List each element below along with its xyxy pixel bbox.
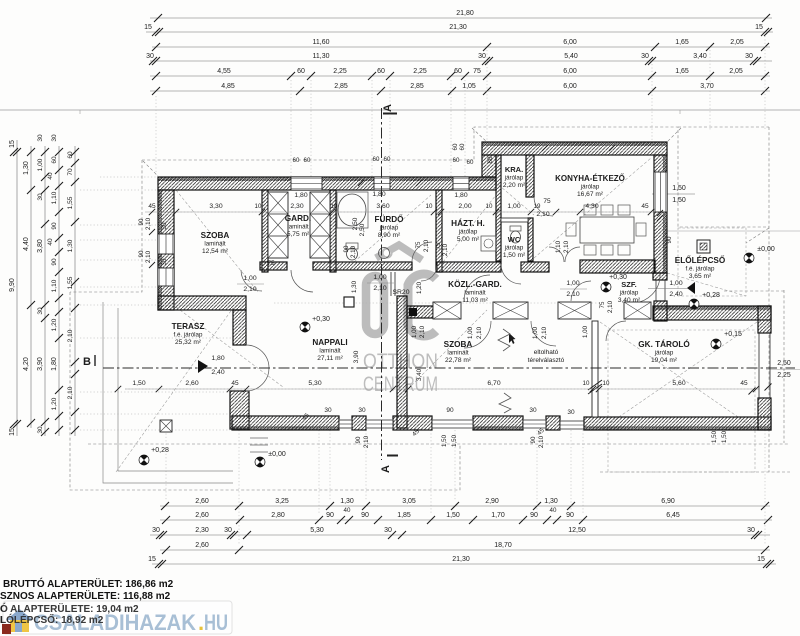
- svg-text:SZOBA: SZOBA: [444, 340, 473, 349]
- top dimension chain rows: [144, 10, 773, 95]
- door arcs: [241, 197, 660, 391]
- svg-text:TERASZ: TERASZ: [172, 322, 205, 331]
- svg-text:1,70: 1,70: [491, 512, 505, 519]
- svg-text:1,10: 1,10: [51, 191, 58, 204]
- svg-text:30: 30: [224, 527, 232, 534]
- svg-text:2,10: 2,10: [607, 300, 614, 313]
- svg-text:3,30: 3,30: [209, 203, 222, 210]
- svg-text:FÜRDŐ: FÜRDŐ: [374, 213, 404, 224]
- szf east wall: [654, 301, 667, 321]
- svg-text:Ó ALAPTERÜLETE: 19,04 m2: Ó ALAPTERÜLETE: 19,04 m2: [0, 602, 139, 615]
- svg-text:KÖZL.-GARD.: KÖZL.-GARD.: [448, 279, 502, 289]
- south window 4: [523, 419, 546, 429]
- kitchen bottom wall: [580, 260, 655, 273]
- svg-text:45: 45: [641, 203, 649, 210]
- svg-text:30: 30: [324, 407, 332, 414]
- svg-text:90: 90: [51, 222, 58, 230]
- svg-text:3,90: 3,90: [37, 357, 44, 371]
- svg-text:30: 30: [161, 222, 168, 229]
- svg-text:WC: WC: [508, 235, 521, 244]
- svg-text:30: 30: [37, 307, 44, 315]
- garage right wall top: [758, 306, 771, 333]
- svg-text:+0,30: +0,30: [609, 274, 627, 281]
- svg-text:6,00: 6,00: [563, 68, 577, 75]
- kitchen east window: [654, 172, 667, 212]
- svg-text:2,25: 2,25: [413, 68, 427, 75]
- svg-text:2,10: 2,10: [536, 211, 549, 218]
- svg-text:laminált: laminált: [464, 290, 486, 297]
- radiator zigzag 1: [498, 329, 510, 351]
- svg-text:2,10: 2,10: [538, 435, 545, 448]
- svg-text:70: 70: [67, 168, 74, 176]
- svg-text:40: 40: [550, 507, 557, 514]
- terasz post: [160, 420, 172, 432]
- B arrow: [198, 360, 208, 373]
- svg-text:1,10: 1,10: [555, 240, 562, 253]
- svg-text:+0,28: +0,28: [702, 292, 720, 299]
- watermark OC Otthon Centrum: [366, 245, 436, 336]
- svg-text:laminált: laminált: [204, 241, 226, 248]
- svg-text:90: 90: [530, 436, 537, 443]
- wc east wall: [528, 218, 533, 261]
- svg-text:NAPPALI: NAPPALI: [312, 338, 347, 347]
- svg-text:GARD.: GARD.: [285, 214, 311, 223]
- svg-text:60: 60: [452, 143, 459, 150]
- svg-text:30: 30: [478, 53, 486, 60]
- svg-text:1,00: 1,00: [532, 326, 539, 339]
- svg-text:5,00 m²: 5,00 m²: [457, 236, 480, 243]
- svg-text:HÁZT. H.: HÁZT. H.: [451, 218, 485, 228]
- svg-text:járólap: járólap: [619, 290, 639, 297]
- svg-text:90: 90: [138, 218, 145, 225]
- corridor closet 2: [493, 302, 528, 319]
- svg-text:60: 60: [453, 157, 460, 164]
- gard west wall: [262, 190, 268, 272]
- window W2 top: [374, 177, 390, 190]
- wc north wall: [501, 218, 528, 222]
- eave dashed outline: [70, 127, 790, 490]
- svg-text:1,50: 1,50: [446, 512, 460, 519]
- svg-text:90: 90: [530, 512, 538, 519]
- svg-text:60: 60: [377, 68, 385, 75]
- svg-text:BRUTTÓ ALAPTERÜLET: 186,86 m2: BRUTTÓ ALAPTERÜLET: 186,86 m2: [3, 577, 174, 590]
- svg-text:4,40: 4,40: [23, 237, 30, 251]
- svg-text:10: 10: [486, 203, 493, 210]
- wc toilet: [510, 226, 521, 243]
- middle wall wc: [521, 262, 549, 272]
- svg-text:90: 90: [138, 250, 145, 257]
- svg-text:80: 80: [487, 156, 494, 163]
- svg-text:40: 40: [344, 507, 351, 514]
- garage door opening right: [758, 333, 760, 398]
- kitchen east wall: [654, 155, 667, 273]
- svg-text:1,50: 1,50: [672, 185, 686, 192]
- dotted projection lines vertical: [156, 36, 765, 545]
- svg-text:5,30: 5,30: [308, 380, 321, 387]
- svg-text:2,10: 2,10: [350, 245, 357, 258]
- svg-text:40: 40: [47, 238, 54, 246]
- gard closet right: [310, 192, 330, 258]
- svg-text:5,60: 5,60: [672, 380, 685, 387]
- svg-text:1,30: 1,30: [351, 280, 358, 293]
- svg-text:30: 30: [745, 53, 753, 60]
- corridor closet 3: [558, 302, 591, 319]
- terasz top wall: [158, 296, 246, 310]
- svg-text:12,50: 12,50: [568, 527, 586, 534]
- svg-text:2,10: 2,10: [442, 243, 449, 256]
- svg-text:30: 30: [37, 193, 44, 201]
- svg-text:45: 45: [148, 203, 156, 210]
- svg-text:1,80: 1,80: [294, 192, 307, 199]
- kra east wall: [526, 155, 534, 197]
- area summary text: [0, 577, 174, 626]
- right side dims: [652, 193, 695, 195]
- svg-text:30: 30: [567, 409, 575, 416]
- gard closet left: [268, 192, 288, 258]
- garage west partition: [588, 321, 602, 417]
- svg-text:19,04 m²: 19,04 m²: [651, 357, 678, 364]
- svg-text:2,10: 2,10: [541, 326, 548, 339]
- svg-text:30: 30: [641, 53, 649, 60]
- svg-text:2,05: 2,05: [730, 39, 744, 46]
- svg-text:27,11 m²: 27,11 m²: [317, 355, 343, 362]
- svg-text:1,00: 1,00: [243, 275, 256, 282]
- svg-text:3,65 m²: 3,65 m²: [689, 273, 712, 280]
- svg-text:HU: HU: [204, 610, 228, 635]
- svg-text:laminált: laminált: [447, 350, 469, 357]
- nappali west wall: [233, 310, 246, 345]
- svg-text:2,90: 2,90: [485, 498, 499, 505]
- garage right wall bottom: [758, 398, 771, 430]
- svg-text:2,10: 2,10: [566, 291, 579, 298]
- svg-text:2,80: 2,80: [271, 512, 285, 519]
- south wall stub: [352, 416, 366, 430]
- svg-text:60: 60: [297, 68, 305, 75]
- window W1 top: [291, 177, 322, 190]
- nappali west corner: [230, 391, 249, 429]
- svg-text:KRA.: KRA.: [505, 165, 523, 174]
- svg-text:75: 75: [415, 241, 422, 248]
- svg-text:3,40: 3,40: [693, 53, 707, 60]
- svg-text:1,30: 1,30: [67, 239, 74, 252]
- svg-text:2,10: 2,10: [363, 435, 370, 448]
- svg-text:30: 30: [384, 527, 392, 534]
- svg-text:15: 15: [9, 140, 16, 148]
- nappali post: [344, 297, 354, 307]
- svg-text:2,60: 2,60: [195, 542, 209, 549]
- svg-text:+0,28: +0,28: [151, 447, 169, 454]
- bath tub: [337, 192, 368, 228]
- svg-text:30: 30: [152, 527, 160, 534]
- west window 1: [158, 234, 174, 254]
- svg-text:1,80: 1,80: [51, 357, 58, 371]
- svg-text:SZOBA: SZOBA: [201, 231, 230, 240]
- svg-text:1,55: 1,55: [67, 196, 74, 209]
- svg-text:60: 60: [293, 157, 300, 164]
- svg-text:60: 60: [459, 143, 466, 150]
- svg-text:30: 30: [161, 258, 168, 265]
- svg-text:60: 60: [454, 68, 462, 75]
- entrance arrow: [687, 282, 695, 294]
- svg-text:19: 19: [534, 203, 541, 210]
- svg-text:6,00: 6,00: [563, 39, 577, 46]
- svg-text:laminált: laminált: [287, 224, 309, 231]
- south window 5: [560, 420, 584, 430]
- svg-text:2,60: 2,60: [195, 498, 209, 505]
- svg-text:90: 90: [51, 258, 58, 266]
- svg-text:1,00: 1,00: [467, 326, 474, 339]
- svg-text:4,20: 4,20: [23, 357, 30, 371]
- svg-text:6,70: 6,70: [487, 380, 500, 387]
- roof projection diagonals: [116, 158, 757, 472]
- svg-text:B: B: [83, 356, 91, 368]
- interior dashed reference lines: [125, 212, 760, 389]
- SR20 pillar wall: [397, 296, 407, 428]
- svg-text:30: 30: [37, 426, 44, 434]
- svg-text:15: 15: [148, 556, 156, 563]
- svg-text:1,50: 1,50: [711, 430, 718, 443]
- section mark A bottom: [387, 455, 398, 457]
- dining table: [580, 217, 634, 243]
- cursor artifact: [509, 333, 516, 344]
- svg-text:18,70: 18,70: [494, 542, 512, 549]
- svg-text:1,50: 1,50: [132, 380, 145, 387]
- svg-text:3,40: 3,40: [416, 368, 423, 381]
- south wall at A: [393, 416, 432, 430]
- svg-text:90: 90: [355, 436, 362, 443]
- gard east wall: [330, 190, 336, 272]
- svg-text:60: 60: [467, 159, 474, 166]
- svg-text:±0,00: ±0,00: [268, 451, 286, 458]
- svg-text:SR20: SR20: [392, 289, 409, 296]
- svg-text:6,00: 6,00: [563, 83, 577, 90]
- svg-text:75: 75: [473, 68, 481, 75]
- middle wall házt: [437, 262, 501, 272]
- svg-text:2,25: 2,25: [333, 68, 347, 75]
- svg-text:1,80: 1,80: [211, 355, 224, 362]
- svg-text:90: 90: [343, 245, 350, 252]
- svg-text:10: 10: [583, 380, 590, 387]
- middle wall g1: [260, 262, 287, 270]
- svg-text:járólap: járólap: [504, 245, 524, 252]
- svg-text:SZF.: SZF.: [621, 280, 636, 289]
- svg-text:A: A: [382, 104, 394, 112]
- svg-text:2,10: 2,10: [563, 240, 570, 253]
- svg-text:2,00: 2,00: [458, 203, 471, 210]
- svg-text:25,32 m²: 25,32 m²: [175, 339, 202, 346]
- svg-text:15: 15: [9, 428, 16, 436]
- svg-text:90: 90: [361, 512, 369, 519]
- svg-text:2,10: 2,10: [423, 239, 430, 252]
- svg-text:2,10: 2,10: [243, 286, 256, 293]
- svg-text:75: 75: [599, 301, 606, 308]
- svg-text:laminált: laminált: [319, 348, 341, 355]
- garage bottom wall: [584, 417, 771, 430]
- garage ne connector: [653, 273, 667, 280]
- szf closet: [624, 302, 651, 319]
- svg-text:1,00: 1,00: [582, 325, 589, 338]
- svg-text:2,40: 2,40: [669, 291, 682, 298]
- svg-text:5,40: 5,40: [564, 53, 578, 60]
- svg-text:60: 60: [51, 156, 58, 164]
- svg-text:11,03 m²: 11,03 m²: [462, 297, 488, 304]
- svg-text:ELŐLÉPCSŐ: ELŐLÉPCSŐ: [675, 254, 726, 265]
- svg-text:2,10: 2,10: [67, 329, 74, 342]
- svg-text:járólap: járólap: [504, 175, 524, 182]
- kitchen west connector: [482, 155, 496, 177]
- svg-text:2,10: 2,10: [476, 326, 483, 339]
- svg-text:1,00: 1,00: [37, 158, 44, 171]
- svg-text:45: 45: [740, 380, 748, 387]
- svg-text:21,30: 21,30: [452, 556, 470, 563]
- svg-text:1,85: 1,85: [397, 512, 411, 519]
- svg-text:2,30: 2,30: [290, 203, 303, 210]
- svg-text:1,65: 1,65: [675, 39, 689, 46]
- svg-text:2,50: 2,50: [352, 217, 359, 230]
- svg-text:75: 75: [435, 242, 442, 249]
- svg-text:30: 30: [51, 134, 58, 142]
- svg-text:11,30: 11,30: [313, 53, 330, 60]
- svg-text:5,30: 5,30: [310, 527, 324, 534]
- south wall 1: [232, 416, 339, 430]
- corridor west thin partition: [391, 272, 395, 296]
- horizontal page line: [0, 109, 800, 111]
- svg-text:térelválasztó: térelválasztó: [528, 357, 565, 364]
- terasz deck outline: [103, 302, 233, 483]
- left dimension chain columns: [9, 134, 79, 436]
- west wall: [158, 190, 174, 310]
- svg-text:60: 60: [67, 151, 74, 159]
- svg-text:1,30: 1,30: [340, 498, 354, 505]
- szf-elölépcső door jamb lines: [656, 280, 665, 301]
- svg-text:45: 45: [231, 380, 239, 387]
- svg-text:15: 15: [755, 24, 763, 31]
- svg-text:1,00: 1,00: [669, 280, 682, 287]
- svg-text:8,90 m²: 8,90 m²: [378, 232, 401, 239]
- corridor closet 1: [433, 302, 461, 319]
- section line A: [381, 108, 383, 460]
- svg-text:eltolható: eltolható: [534, 349, 559, 356]
- fürdő east wall: [436, 190, 442, 272]
- svg-text:±0,00: ±0,00: [757, 246, 775, 253]
- svg-text:11,60: 11,60: [313, 39, 330, 46]
- svg-text:15: 15: [144, 24, 152, 31]
- svg-text:1,50: 1,50: [441, 434, 448, 447]
- svg-text:1,00: 1,00: [411, 325, 418, 338]
- section line B: [103, 367, 795, 369]
- window W3 top: [453, 177, 469, 190]
- svg-text:4,30: 4,30: [585, 203, 598, 210]
- fürdő basin: [379, 248, 390, 259]
- svg-text:1,20: 1,20: [51, 397, 58, 410]
- svg-text:60: 60: [373, 156, 380, 163]
- south window 3: [432, 419, 473, 429]
- middle wall g2-fürdő: [313, 262, 412, 270]
- watermark csaladihazak.hu: [0, 601, 232, 635]
- svg-text:90: 90: [566, 512, 574, 519]
- svg-text:1,00: 1,00: [507, 203, 520, 210]
- svg-text:2,10: 2,10: [145, 250, 152, 263]
- svg-text:+0,30: +0,30: [312, 316, 330, 323]
- svg-text:6,45: 6,45: [666, 512, 680, 519]
- svg-text:4,85: 4,85: [221, 83, 235, 90]
- kitchen top wall: [482, 142, 667, 155]
- svg-text:75: 75: [267, 260, 275, 267]
- svg-text:2,10: 2,10: [373, 285, 386, 292]
- svg-text:1,55: 1,55: [67, 276, 74, 289]
- garage top wall: [653, 306, 771, 320]
- entry steps: [250, 438, 268, 452]
- svg-text:40: 40: [47, 172, 54, 180]
- svg-text:2,85: 2,85: [410, 83, 424, 90]
- svg-text:járólap: járólap: [458, 229, 478, 236]
- svg-text:9,90: 9,90: [9, 278, 16, 292]
- chairs: [566, 205, 646, 255]
- svg-text:3,80: 3,80: [37, 239, 44, 253]
- svg-text:1,30: 1,30: [23, 161, 30, 175]
- svg-text:2,30: 2,30: [195, 527, 209, 534]
- svg-text:4,55: 4,55: [217, 68, 231, 75]
- házt washer: [481, 236, 496, 251]
- svg-text:2,10: 2,10: [419, 325, 426, 338]
- svg-text:2,10: 2,10: [67, 386, 74, 399]
- svg-text:3,90: 3,90: [353, 350, 360, 363]
- svg-text:60: 60: [304, 157, 311, 164]
- svg-text:3,40 m²: 3,40 m²: [618, 297, 641, 304]
- svg-text:1,10: 1,10: [51, 279, 58, 292]
- south wall 3: [546, 416, 560, 430]
- svg-text:LÓLÉPCSŐ: 18,92 m2: LÓLÉPCSŐ: 18,92 m2: [0, 613, 104, 626]
- svg-text:10: 10: [603, 380, 610, 387]
- svg-text:3,70: 3,70: [700, 83, 714, 90]
- svg-text:60: 60: [384, 156, 391, 163]
- svg-text:10: 10: [255, 203, 262, 210]
- top wall: [158, 177, 496, 190]
- svg-text:1,00: 1,00: [566, 280, 579, 287]
- svg-text:75: 75: [543, 198, 551, 205]
- svg-text:90: 90: [326, 512, 334, 519]
- svg-text:12,54 m²: 12,54 m²: [202, 248, 229, 255]
- svg-text:2,60: 2,60: [185, 380, 198, 387]
- svg-text:3,60: 3,60: [376, 203, 389, 210]
- svg-text:2,60: 2,60: [195, 512, 209, 519]
- svg-text:1,20: 1,20: [51, 318, 58, 331]
- svg-text:30: 30: [146, 53, 154, 60]
- svg-text:30: 30: [747, 527, 755, 534]
- svg-text:30: 30: [529, 407, 537, 414]
- svg-text:1,50: 1,50: [721, 430, 728, 443]
- elölépcső post: [697, 240, 710, 253]
- svg-text:22,78 m²: 22,78 m²: [445, 357, 472, 364]
- svg-text:30: 30: [358, 407, 366, 414]
- svg-text:járólap: járólap: [379, 225, 399, 232]
- interior dim row south: [115, 380, 772, 395]
- svg-text:járólap: járólap: [654, 350, 674, 357]
- svg-text:1,20: 1,20: [416, 281, 423, 294]
- svg-text:3,25: 3,25: [275, 498, 289, 505]
- svg-text:5,75 m²: 5,75 m²: [287, 231, 310, 238]
- svg-text:1,50: 1,50: [451, 434, 458, 447]
- svg-text:A: A: [380, 465, 392, 473]
- corridor south stub: [407, 306, 433, 318]
- svg-text:f.é. járólap: f.é. járólap: [686, 266, 715, 273]
- svg-text:10: 10: [331, 203, 338, 210]
- svg-text:30: 30: [37, 134, 44, 142]
- svg-text:2,20 m²: 2,20 m²: [503, 182, 526, 189]
- svg-text:járólap: járólap: [580, 184, 600, 191]
- bottom dimension chain rows: [148, 498, 776, 568]
- svg-text:2,05: 2,05: [729, 68, 743, 75]
